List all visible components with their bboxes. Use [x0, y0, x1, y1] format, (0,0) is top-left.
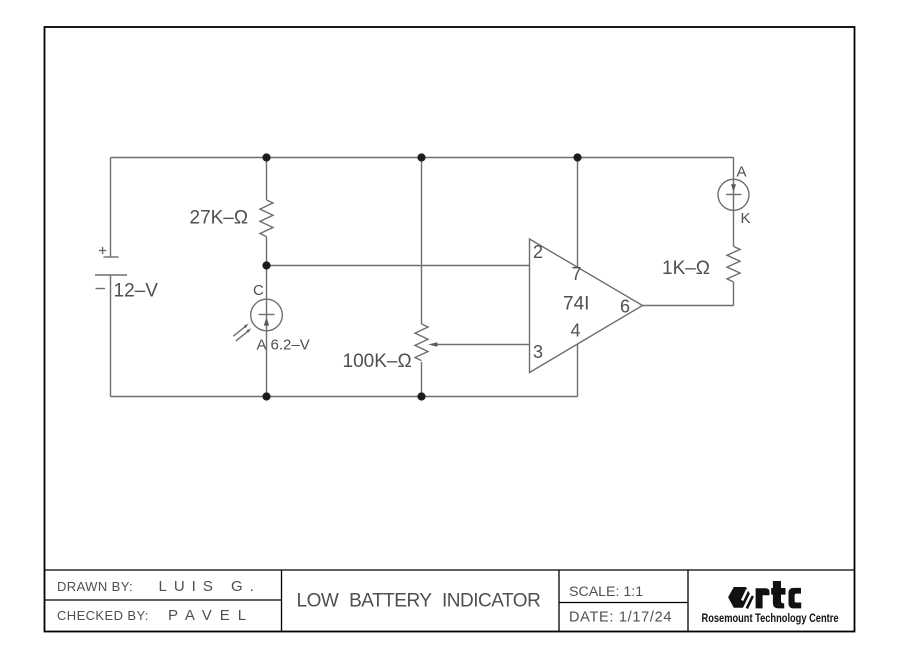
svg-text:27K–Ω: 27K–Ω: [190, 208, 249, 229]
svg-text:6.2–V: 6.2–V: [271, 337, 310, 354]
svg-text:7: 7: [572, 264, 582, 284]
svg-text:6: 6: [620, 297, 630, 317]
svg-text:4: 4: [571, 321, 581, 341]
svg-text:SCALE: 1:1: SCALE: 1:1: [569, 584, 643, 600]
svg-text:A: A: [257, 337, 267, 354]
svg-text:DATE: 1/17/24: DATE: 1/17/24: [569, 610, 672, 626]
svg-text:12–V: 12–V: [114, 281, 159, 302]
svg-text:LUIS G.: LUIS G.: [159, 578, 261, 595]
svg-text:A: A: [737, 164, 747, 181]
svg-text:K: K: [741, 210, 751, 227]
svg-text:LOW BATTERY INDICATOR: LOW BATTERY INDICATOR: [297, 591, 541, 612]
svg-text:1K–Ω: 1K–Ω: [662, 258, 710, 279]
svg-text:DRAWN BY:: DRAWN BY:: [57, 579, 133, 594]
svg-text:2: 2: [533, 242, 543, 262]
svg-text:CHECKED BY:: CHECKED BY:: [57, 608, 149, 623]
svg-text:3: 3: [533, 342, 543, 362]
svg-text:PAVEL: PAVEL: [168, 607, 254, 624]
svg-text:C: C: [253, 282, 264, 299]
svg-text:Rosemount Technology Centre: Rosemount Technology Centre: [702, 613, 839, 625]
svg-text:100K–Ω: 100K–Ω: [343, 351, 412, 372]
svg-text:74I: 74I: [563, 294, 589, 315]
